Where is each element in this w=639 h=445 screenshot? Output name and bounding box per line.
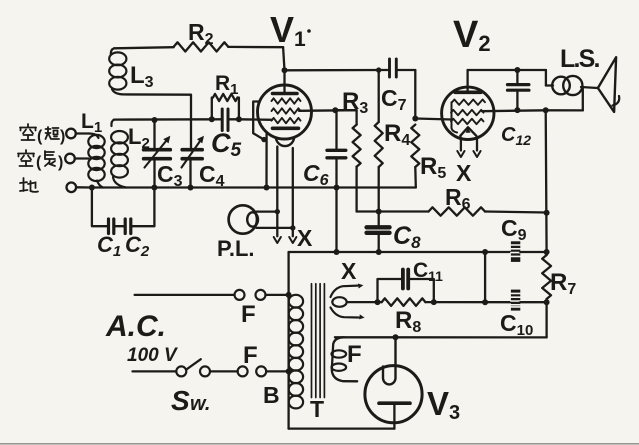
svg-text:P.L.: P.L. <box>217 236 255 261</box>
svg-text:F: F <box>347 341 362 368</box>
svg-text:F: F <box>241 301 256 328</box>
svg-text:S: S <box>171 385 190 416</box>
svg-text:X: X <box>456 160 472 186</box>
svg-text:X: X <box>341 258 357 284</box>
svg-text:A.C.: A.C. <box>105 310 166 343</box>
svg-text:(: ( <box>36 154 42 171</box>
svg-text:w.: w. <box>190 393 210 415</box>
svg-text:): ) <box>60 128 65 145</box>
svg-text:B: B <box>263 382 280 408</box>
svg-text:(: ( <box>37 128 43 145</box>
svg-text:L.S.: L.S. <box>560 45 599 73</box>
svg-text:F: F <box>243 342 258 369</box>
svg-text:100 V: 100 V <box>127 345 178 366</box>
svg-text:): ) <box>58 154 63 171</box>
svg-text:T: T <box>310 396 324 422</box>
svg-text:X: X <box>297 225 313 251</box>
